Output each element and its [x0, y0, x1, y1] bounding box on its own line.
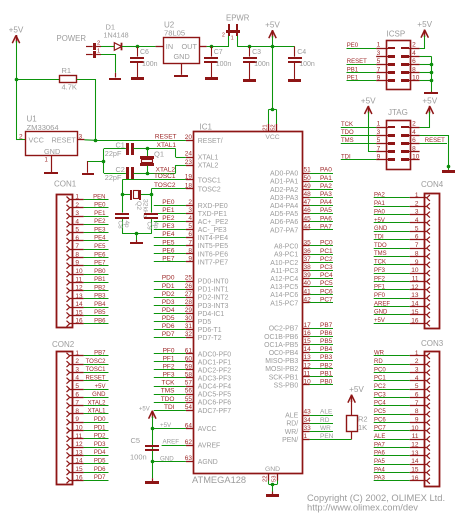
svg-text:PB1: PB1: [347, 67, 359, 73]
svg-text:ADC3-PF3: ADC3-PF3: [198, 376, 231, 383]
svg-text:PA3: PA3: [320, 191, 332, 198]
svg-text:11: 11: [75, 276, 82, 283]
svg-text:PB7: PB7: [320, 322, 333, 329]
svg-text:PF0: PF0: [374, 293, 386, 299]
svg-text:AREF: AREF: [374, 301, 390, 307]
svg-text:ADC4-PF4: ADC4-PF4: [198, 384, 231, 391]
svg-text:PD3: PD3: [94, 442, 106, 448]
svg-text:TOSC1: TOSC1: [198, 178, 221, 185]
svg-text:POWER: POWER: [57, 34, 87, 43]
svg-text:+5V: +5V: [349, 385, 364, 394]
svg-text:PB6: PB6: [320, 330, 333, 337]
svg-text:PA2: PA2: [374, 193, 386, 199]
svg-text:22pF: 22pF: [105, 173, 122, 182]
svg-text:RESET/: RESET/: [198, 138, 223, 145]
svg-text:4.7K: 4.7K: [62, 83, 77, 92]
svg-text:13: 13: [75, 293, 83, 300]
svg-text:23: 23: [185, 159, 193, 166]
svg-text:63: 63: [185, 455, 193, 462]
svg-text:+5V: +5V: [160, 422, 172, 429]
svg-text:PD3: PD3: [162, 299, 175, 306]
svg-text:AREF: AREF: [163, 439, 180, 446]
svg-text:TDI: TDI: [341, 155, 351, 161]
svg-text:PC3: PC3: [320, 264, 333, 271]
svg-text:100n: 100n: [254, 61, 270, 68]
svg-text:7: 7: [75, 243, 79, 250]
svg-text:58: 58: [185, 372, 193, 379]
svg-text:PC6: PC6: [374, 417, 386, 423]
svg-text:VCC: VCC: [29, 136, 44, 145]
svg-text:TDO: TDO: [341, 130, 354, 136]
svg-text:2: 2: [415, 200, 419, 207]
svg-text:C8: C8: [117, 221, 124, 230]
svg-text:INT6-PE6: INT6-PE6: [198, 251, 228, 258]
svg-text:http://www.olimex.com/dev: http://www.olimex.com/dev: [307, 501, 418, 512]
svg-text:MISO-PB3: MISO-PB3: [265, 358, 298, 365]
svg-text:RESET: RESET: [347, 59, 367, 65]
svg-text:64: 64: [185, 422, 193, 429]
svg-text:38: 38: [304, 264, 312, 271]
svg-text:+5V: +5V: [374, 218, 385, 224]
svg-text:PE6: PE6: [94, 252, 106, 258]
svg-text:5: 5: [75, 383, 79, 390]
svg-text:TDO: TDO: [161, 396, 175, 403]
svg-text:PE2: PE2: [94, 219, 106, 225]
svg-text:15: 15: [411, 309, 419, 316]
svg-text:A10-PC2: A10-PC2: [270, 260, 298, 267]
svg-text:TOSC2: TOSC2: [86, 359, 107, 365]
svg-text:GND: GND: [265, 466, 280, 473]
svg-text:4: 4: [412, 50, 416, 57]
svg-text:4p: 4p: [152, 222, 159, 230]
svg-text:OC0-PB4: OC0-PB4: [269, 350, 299, 357]
svg-text:+5V: +5V: [417, 20, 432, 29]
svg-text:AD4-PA4: AD4-PA4: [270, 203, 298, 210]
svg-text:IC1: IC1: [200, 123, 213, 132]
svg-text:PE1: PE1: [94, 211, 106, 217]
svg-text:TMS: TMS: [374, 251, 387, 257]
svg-text:INT7-PE7: INT7-PE7: [198, 259, 228, 266]
svg-text:PD6-T1: PD6-T1: [198, 327, 222, 334]
svg-text:TDI: TDI: [374, 235, 384, 241]
svg-text:PEN/: PEN/: [282, 437, 298, 444]
svg-text:1: 1: [377, 42, 381, 49]
svg-text:CON4: CON4: [421, 180, 444, 189]
svg-text:20: 20: [185, 134, 193, 141]
svg-text:16: 16: [304, 330, 312, 337]
svg-text:43: 43: [304, 409, 312, 416]
svg-text:PB3: PB3: [94, 294, 106, 300]
svg-text:2: 2: [97, 40, 100, 46]
svg-text:7: 7: [377, 66, 381, 73]
svg-text:AD5-PA5: AD5-PA5: [270, 211, 298, 218]
svg-text:PD7: PD7: [94, 475, 106, 481]
svg-text:PA5: PA5: [320, 207, 332, 214]
svg-text:MOSI-PB2: MOSI-PB2: [265, 366, 298, 373]
svg-text:PB0: PB0: [320, 379, 333, 386]
svg-text:14: 14: [75, 301, 83, 308]
svg-text:PD4: PD4: [94, 450, 106, 456]
svg-text:AVCC: AVCC: [198, 426, 217, 433]
svg-text:PD5: PD5: [162, 315, 175, 322]
svg-text:28: 28: [185, 299, 193, 306]
svg-text:PA3: PA3: [374, 476, 386, 482]
svg-text:AD2-PA2: AD2-PA2: [270, 187, 298, 194]
svg-text:ADC0-PF0: ADC0-PF0: [198, 351, 231, 358]
svg-text:54: 54: [185, 404, 193, 411]
svg-text:PD1: PD1: [162, 283, 175, 290]
svg-text:PD0-INT0: PD0-INT0: [198, 279, 229, 286]
svg-text:56: 56: [185, 388, 193, 395]
svg-text:PF2: PF2: [163, 364, 175, 371]
svg-text:PA4: PA4: [320, 199, 332, 206]
svg-text:9: 9: [377, 75, 381, 82]
svg-text:C9: C9: [146, 222, 153, 231]
svg-text:ICSP: ICSP: [387, 30, 406, 39]
svg-text:22pF: 22pF: [105, 149, 122, 158]
svg-text:C7: C7: [214, 49, 223, 56]
svg-text:A11-PC3: A11-PC3: [271, 268, 299, 275]
svg-text:PD5: PD5: [198, 319, 212, 326]
svg-text:10: 10: [411, 267, 419, 274]
svg-text:A14-PC6: A14-PC6: [270, 292, 298, 299]
svg-text:C3: C3: [252, 49, 261, 56]
svg-text:OC2-PB7: OC2-PB7: [269, 326, 299, 333]
svg-text:11: 11: [304, 370, 311, 377]
svg-text:11: 11: [412, 276, 419, 283]
svg-text:2: 2: [222, 33, 225, 39]
svg-text:7: 7: [377, 145, 381, 152]
svg-text:RESET: RESET: [85, 376, 105, 382]
svg-text:ALE: ALE: [320, 409, 333, 416]
svg-text:PB1: PB1: [320, 370, 333, 377]
svg-text:1: 1: [231, 36, 234, 42]
svg-text:TCK: TCK: [374, 260, 386, 266]
svg-text:SS-PB0: SS-PB0: [274, 382, 299, 389]
svg-text:52: 52: [271, 124, 277, 130]
svg-text:+5V: +5V: [361, 96, 376, 105]
svg-text:AD6-PA6: AD6-PA6: [270, 219, 298, 226]
svg-text:PC3: PC3: [374, 392, 386, 398]
svg-text:PE3: PE3: [94, 227, 106, 233]
svg-text:48: 48: [304, 191, 312, 198]
svg-text:4: 4: [188, 215, 192, 222]
svg-text:PE6: PE6: [162, 247, 175, 254]
svg-text:PA1: PA1: [320, 175, 332, 182]
svg-text:PC4: PC4: [320, 272, 333, 279]
svg-text:PD2: PD2: [94, 434, 106, 440]
svg-text:11: 11: [412, 433, 419, 440]
svg-text:RD: RD: [374, 359, 383, 365]
svg-text:100n: 100n: [130, 453, 147, 462]
svg-text:A15-PC7: A15-PC7: [270, 300, 298, 307]
svg-text:8: 8: [412, 66, 416, 73]
svg-text:10: 10: [75, 268, 83, 275]
svg-text:+5V: +5V: [9, 26, 24, 35]
svg-text:1N4148: 1N4148: [104, 31, 129, 40]
svg-text:1: 1: [97, 49, 100, 55]
svg-text:PB5: PB5: [94, 310, 106, 316]
svg-text:10: 10: [411, 425, 419, 432]
svg-text:24: 24: [185, 151, 193, 158]
svg-text:10: 10: [412, 75, 420, 82]
svg-text:PA2: PA2: [320, 183, 332, 190]
svg-text:34: 34: [304, 417, 312, 424]
svg-text:5: 5: [75, 227, 79, 234]
svg-text:PD1: PD1: [94, 425, 106, 431]
svg-text:PE1: PE1: [347, 76, 359, 82]
svg-text:14: 14: [411, 301, 419, 308]
svg-text:19: 19: [185, 174, 193, 181]
svg-text:PEN: PEN: [320, 433, 334, 440]
svg-text:PC7: PC7: [320, 296, 333, 303]
svg-text:57: 57: [185, 380, 193, 387]
svg-text:INT5-PE5: INT5-PE5: [198, 243, 228, 250]
svg-text:62: 62: [185, 439, 193, 446]
svg-text:TOSC2: TOSC2: [198, 186, 221, 193]
svg-text:13: 13: [411, 292, 419, 299]
svg-text:TXD-PE1: TXD-PE1: [198, 211, 227, 218]
svg-text:GND: GND: [174, 52, 190, 61]
svg-text:AC-_PE3: AC-_PE3: [198, 227, 227, 234]
svg-text:6: 6: [412, 58, 416, 65]
svg-text:12: 12: [411, 284, 419, 291]
svg-text:2: 2: [75, 202, 79, 209]
svg-text:21: 21: [263, 124, 269, 130]
svg-text:51: 51: [304, 167, 312, 174]
svg-text:AD0-PA0: AD0-PA0: [270, 171, 298, 178]
svg-text:TMS: TMS: [341, 138, 354, 144]
svg-text:PB7: PB7: [94, 351, 106, 357]
svg-text:XTAL1: XTAL1: [198, 155, 219, 162]
svg-text:6: 6: [415, 234, 419, 241]
svg-text:PA5: PA5: [374, 459, 386, 465]
svg-text:16: 16: [75, 474, 83, 481]
svg-text:10: 10: [412, 154, 420, 161]
svg-text:+5V: +5V: [95, 384, 106, 390]
svg-text:PC5: PC5: [374, 409, 386, 415]
svg-text:2: 2: [415, 358, 419, 365]
svg-text:ALE: ALE: [285, 413, 298, 420]
svg-text:TOSC1: TOSC1: [86, 367, 107, 373]
svg-text:5: 5: [415, 383, 419, 390]
svg-text:IN: IN: [166, 42, 173, 51]
svg-text:AGND: AGND: [198, 459, 218, 466]
svg-text:PE2: PE2: [162, 215, 175, 222]
svg-text:32kHz: 32kHz: [142, 199, 149, 219]
svg-text:TDO: TDO: [374, 243, 387, 249]
svg-text:PB0: PB0: [94, 269, 106, 275]
svg-text:OUT: OUT: [182, 42, 198, 51]
svg-text:PB1: PB1: [94, 277, 106, 283]
svg-text:A8-PC0: A8-PC0: [274, 244, 298, 251]
svg-text:OC1B-PB6: OC1B-PB6: [264, 334, 298, 341]
svg-text:12: 12: [75, 285, 83, 292]
svg-text:PD0: PD0: [162, 275, 175, 282]
svg-text:ZM33064: ZM33064: [27, 123, 59, 132]
svg-text:PD6: PD6: [162, 323, 175, 330]
svg-text:ALE: ALE: [374, 434, 385, 440]
svg-text:3: 3: [377, 50, 381, 57]
svg-text:8: 8: [188, 247, 192, 254]
svg-text:1: 1: [304, 433, 308, 440]
svg-text:RD: RD: [320, 417, 330, 424]
svg-text:37: 37: [304, 256, 312, 263]
svg-text:PE7: PE7: [94, 261, 106, 267]
svg-text:C6: C6: [140, 49, 149, 56]
svg-text:AD3-PA3: AD3-PA3: [270, 195, 298, 202]
svg-text:4: 4: [415, 217, 419, 224]
svg-text:7: 7: [75, 400, 79, 407]
svg-text:A13-PC5: A13-PC5: [270, 284, 298, 291]
svg-text:49: 49: [304, 183, 312, 190]
svg-text:OC1A-PB5: OC1A-PB5: [264, 342, 298, 349]
svg-text:TCK: TCK: [162, 380, 176, 387]
svg-text:PB2: PB2: [94, 285, 106, 291]
svg-text:31: 31: [185, 323, 193, 330]
svg-text:PD7-T2: PD7-T2: [198, 335, 222, 342]
svg-text:RD/: RD/: [286, 421, 298, 428]
svg-text:100n: 100n: [216, 61, 232, 68]
svg-text:60: 60: [185, 355, 193, 362]
svg-text:TCK: TCK: [341, 122, 353, 128]
svg-text:+5V: +5V: [374, 318, 385, 324]
svg-text:TMS: TMS: [161, 388, 175, 395]
svg-text:9: 9: [377, 154, 381, 161]
svg-text:PF2: PF2: [374, 276, 386, 282]
svg-text:Q2: Q2: [135, 201, 142, 210]
svg-text:PE5: PE5: [94, 244, 106, 250]
svg-text:16: 16: [411, 475, 419, 482]
svg-text:PE4: PE4: [94, 236, 106, 242]
svg-text:PE0: PE0: [162, 199, 175, 206]
svg-text:PD5: PD5: [94, 459, 106, 465]
svg-text:12: 12: [75, 441, 83, 448]
svg-text:PA6: PA6: [320, 215, 332, 222]
svg-text:6: 6: [415, 392, 419, 399]
svg-text:RXD-PE0: RXD-PE0: [198, 203, 228, 210]
svg-text:GND: GND: [92, 392, 106, 398]
svg-text:PC2: PC2: [374, 384, 386, 390]
svg-text:1: 1: [75, 350, 79, 357]
svg-text:18: 18: [185, 182, 193, 189]
svg-text:+5V: +5V: [139, 407, 150, 413]
svg-text:AC+_PE2: AC+_PE2: [198, 219, 229, 226]
svg-text:4p: 4p: [123, 221, 130, 229]
svg-text:1K: 1K: [358, 423, 367, 432]
svg-text:16: 16: [75, 318, 83, 325]
svg-text:ADC5-PF5: ADC5-PF5: [198, 392, 231, 399]
svg-text:PD0: PD0: [94, 417, 106, 423]
svg-text:GND: GND: [44, 147, 60, 156]
svg-text:C4: C4: [297, 49, 306, 56]
svg-text:PE0: PE0: [94, 203, 106, 209]
svg-text:9: 9: [415, 417, 419, 424]
svg-text:PE1: PE1: [162, 207, 175, 214]
svg-text:PEN: PEN: [93, 194, 105, 200]
svg-text:PC0: PC0: [374, 367, 386, 373]
svg-text:2: 2: [19, 134, 23, 141]
svg-text:2: 2: [412, 121, 416, 128]
svg-text:59: 59: [185, 364, 193, 371]
svg-text:PD2: PD2: [162, 291, 175, 298]
svg-text:32: 32: [185, 331, 193, 338]
svg-text:PB6: PB6: [94, 319, 106, 325]
svg-text:3: 3: [377, 129, 381, 136]
svg-text:RESET: RESET: [52, 136, 77, 145]
svg-text:PC4: PC4: [374, 401, 386, 407]
svg-text:5: 5: [377, 137, 381, 144]
svg-text:5: 5: [377, 58, 381, 65]
svg-text:9: 9: [188, 256, 192, 263]
svg-text:JTAG: JTAG: [388, 108, 408, 117]
svg-text:26: 26: [185, 283, 193, 290]
svg-text:ADC7-PF7: ADC7-PF7: [198, 408, 231, 415]
svg-text:16: 16: [411, 317, 419, 324]
svg-text:TOSC1: TOSC1: [154, 173, 176, 180]
svg-text:PF3: PF3: [374, 268, 386, 274]
svg-text:6: 6: [412, 137, 416, 144]
svg-text:2: 2: [412, 42, 416, 49]
svg-text:PF1: PF1: [163, 355, 175, 362]
svg-text:PC2: PC2: [320, 256, 333, 263]
svg-text:PA6: PA6: [374, 451, 386, 457]
svg-text:29: 29: [185, 307, 193, 314]
svg-text:PC6: PC6: [320, 288, 333, 295]
svg-text:GND: GND: [160, 455, 174, 462]
svg-text:PD7: PD7: [162, 331, 175, 338]
svg-text:PF3: PF3: [163, 372, 175, 379]
svg-text:50: 50: [304, 175, 312, 182]
svg-text:30: 30: [185, 315, 193, 322]
svg-text:15: 15: [304, 338, 312, 345]
svg-text:8: 8: [75, 252, 79, 259]
svg-text:PB5: PB5: [320, 338, 333, 345]
svg-text:SCK-PB1: SCK-PB1: [269, 374, 299, 381]
svg-text:PF0: PF0: [163, 347, 175, 354]
svg-text:CON2: CON2: [52, 340, 75, 349]
svg-text:ATMEGA128: ATMEGA128: [192, 475, 246, 485]
svg-text:PC0: PC0: [320, 240, 333, 247]
svg-text:C5: C5: [131, 436, 141, 445]
svg-text:PE3: PE3: [162, 223, 175, 230]
svg-text:PA1: PA1: [374, 201, 386, 207]
svg-text:6: 6: [75, 391, 79, 398]
svg-text:15: 15: [75, 309, 83, 316]
svg-text:Q1: Q1: [154, 150, 164, 159]
svg-text:WR: WR: [374, 351, 385, 357]
svg-text:PD1-INT1: PD1-INT1: [198, 287, 229, 294]
svg-text:7: 7: [415, 242, 419, 249]
svg-text:9: 9: [415, 259, 419, 266]
svg-text:11: 11: [75, 433, 82, 440]
svg-text:53: 53: [272, 476, 278, 482]
svg-text:VCC: VCC: [265, 134, 279, 141]
svg-text:3: 3: [188, 207, 192, 214]
svg-text:4: 4: [75, 218, 79, 225]
svg-text:TDI: TDI: [164, 404, 175, 411]
svg-text:15: 15: [411, 467, 419, 474]
svg-text:PB3: PB3: [320, 354, 333, 361]
svg-text:13: 13: [75, 449, 83, 456]
svg-text:+5V: +5V: [422, 96, 437, 105]
svg-text:33: 33: [304, 425, 312, 432]
svg-text:6: 6: [75, 235, 79, 242]
svg-text:XTAL2: XTAL2: [198, 163, 219, 170]
svg-text:78L05: 78L05: [164, 28, 185, 37]
svg-text:4: 4: [75, 375, 79, 382]
svg-text:61: 61: [185, 347, 193, 354]
